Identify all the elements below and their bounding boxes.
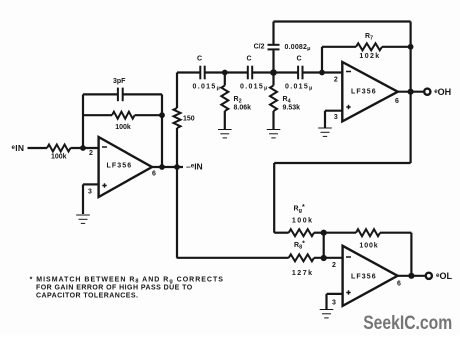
- svg-text:0.015μ: 0.015μ: [240, 84, 269, 92]
- svg-text:0.015μ: 0.015μ: [193, 84, 222, 92]
- svg-text:LF356: LF356: [351, 89, 377, 96]
- svg-text:eOH: eOH: [434, 87, 451, 97]
- svg-text:100k: 100k: [51, 154, 67, 161]
- svg-text:LF356: LF356: [107, 163, 133, 170]
- svg-text:8.06k: 8.06k: [234, 105, 252, 112]
- svg-text:2: 2: [334, 77, 338, 84]
- svg-text:LF356: LF356: [351, 273, 377, 280]
- svg-text:100k: 100k: [292, 217, 314, 224]
- svg-text:150: 150: [183, 116, 195, 123]
- svg-text:3pF: 3pF: [113, 78, 126, 85]
- svg-text:6: 6: [395, 98, 399, 105]
- svg-text:100k: 100k: [115, 124, 131, 131]
- svg-text:C: C: [296, 55, 301, 62]
- svg-text:C/2: C/2: [254, 44, 265, 51]
- svg-text:2: 2: [332, 262, 336, 269]
- svg-text:9.53k: 9.53k: [283, 105, 301, 112]
- svg-text:102k: 102k: [359, 53, 380, 60]
- svg-text:3: 3: [332, 299, 336, 306]
- svg-text:SeekIC.com: SeekIC.com: [363, 313, 452, 334]
- svg-text:100k: 100k: [359, 242, 378, 249]
- svg-text:C: C: [197, 55, 202, 62]
- svg-text:0.0082μ: 0.0082μ: [285, 44, 311, 52]
- svg-text:2: 2: [89, 150, 93, 157]
- svg-text:* MISMATCH BETWEEN R8 AND Rg C: * MISMATCH BETWEEN R8 AND Rg CORRECTS: [30, 276, 224, 284]
- svg-text:–eIN: –eIN: [186, 162, 203, 172]
- svg-text:3: 3: [88, 189, 92, 196]
- svg-text:C: C: [246, 55, 251, 62]
- svg-text:CAPACITOR TOLERANCES.: CAPACITOR TOLERANCES.: [36, 293, 138, 300]
- svg-text:3: 3: [334, 114, 338, 121]
- svg-text:127k: 127k: [292, 270, 314, 277]
- svg-text:6: 6: [397, 281, 401, 288]
- svg-text:0.015μ: 0.015μ: [285, 84, 314, 92]
- svg-text:FOR GAIN ERROR OF HIGH PASS DU: FOR GAIN ERROR OF HIGH PASS DUE TO: [36, 285, 193, 292]
- svg-text:6: 6: [152, 171, 156, 178]
